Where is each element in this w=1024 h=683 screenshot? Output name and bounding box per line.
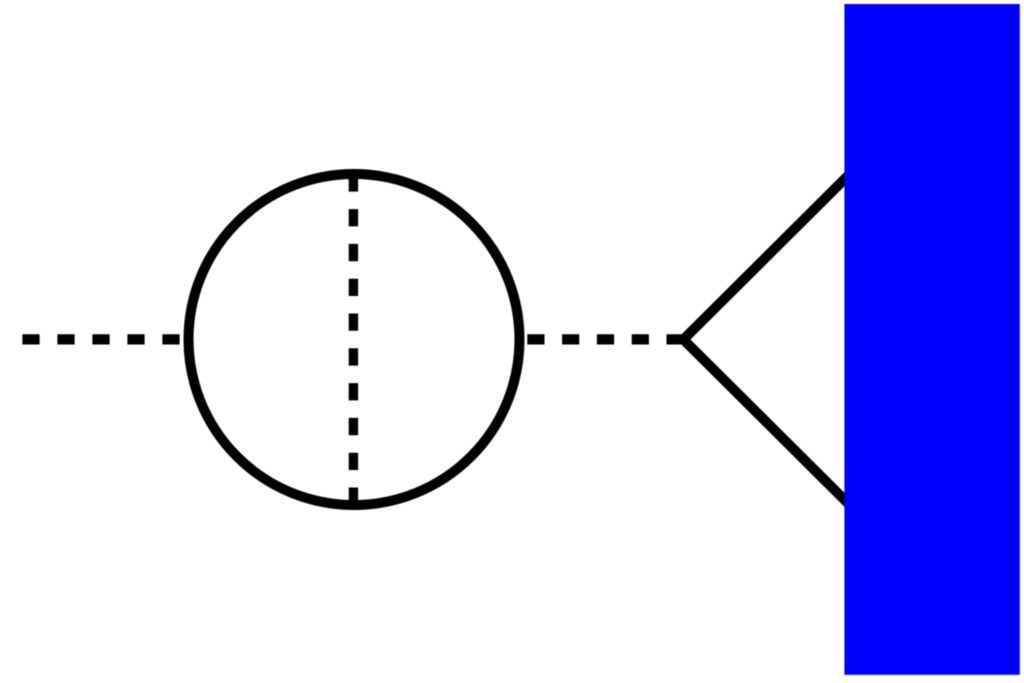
vertex wedge lines — [683, 174, 850, 506]
left dashed external line — [22, 334, 184, 344]
middle dashed line — [527, 334, 683, 344]
blue blob rectangle — [844, 4, 1019, 675]
loop circle — [189, 174, 520, 505]
vertical dashed cut line — [349, 174, 358, 505]
